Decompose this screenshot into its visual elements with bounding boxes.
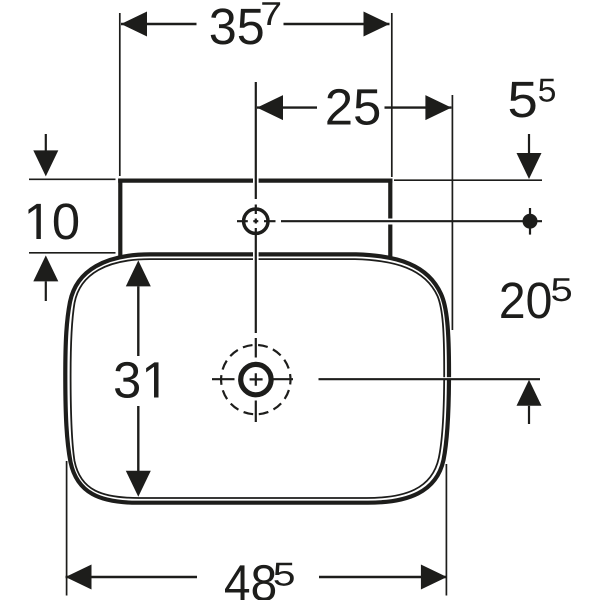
dim 10 down arrow: [33, 150, 58, 176]
dim 25 left arrow: [257, 95, 283, 120]
dim 25 extension line right: [451, 95, 453, 330]
dim 35.7 left arrow: [121, 12, 147, 37]
drain center cross: [250, 373, 263, 386]
dim 48.5 extension line left: [66, 461, 68, 596]
dim 20.5 text: [501, 282, 550, 318]
dim 48.5 left arrow: [66, 565, 92, 590]
dim 31 line: [137, 286, 139, 471]
dim 20.5 arrow stem: [528, 406, 530, 424]
white gap on deck top at centerline crossing: [253, 177, 259, 184]
white gap on basin right edges at drain centerline crossing: [441, 377, 451, 380]
dim 5.5 arrow stem: [528, 134, 530, 154]
basin outer outline: [65, 254, 449, 502]
vertical centerline through faucet and drain: [255, 82, 257, 422]
dim 48.5 right arrow: [421, 565, 447, 590]
dim 35.7 extension line right: [391, 13, 393, 177]
dim 10 text: [28, 203, 78, 239]
drain hole: [241, 364, 271, 394]
faucet hole: [244, 209, 268, 233]
deck right edge: [388, 179, 392, 258]
dim 10 upper extension line: [29, 178, 116, 180]
dim 35.7 right arrow: [364, 12, 390, 37]
dim 20.5 up arrow: [517, 380, 542, 406]
deck top extension line right (for dim 5.5): [394, 179, 542, 181]
dim 48.5 extension line right: [445, 464, 447, 596]
dim 10 down arrow stem: [45, 134, 47, 151]
dim 25 right arrow: [425, 95, 451, 120]
dim 31 text: [115, 362, 158, 398]
dim 31 down arrow: [126, 471, 151, 497]
dim 10 lower extension line: [29, 252, 116, 254]
dim 25 line: [257, 106, 451, 108]
drain horizontal centerline: [212, 378, 540, 380]
dim 5.5 / 20.5 dot terminator: [523, 214, 538, 229]
dim 5.5 text: [510, 82, 536, 118]
basin inner outline: [71, 259, 445, 498]
white gap on basin top edges at centerline crossing: [253, 251, 259, 261]
dim 5.5 down arrow: [517, 153, 542, 179]
dim 31 up arrow: [126, 260, 151, 286]
deck top edge: [118, 179, 392, 183]
drain dashed circle: [221, 345, 290, 414]
deck left edge: [118, 179, 122, 256]
dot vertical tick: [529, 208, 531, 235]
white gap on deck right edge at faucet centerline crossing: [388, 219, 394, 225]
dim 35.7 text: [211, 8, 263, 44]
dim 10 up arrow: [33, 255, 58, 281]
dim 48.5 text: [225, 565, 275, 600]
dim 25 text: [327, 89, 379, 125]
dim 35.7 line: [121, 23, 390, 25]
faucet horizontal centerline: [237, 220, 542, 222]
dim 10 up arrow stem: [45, 281, 47, 301]
dim 35.7 extension line left: [119, 13, 121, 176]
dim 48.5 line: [66, 576, 447, 578]
